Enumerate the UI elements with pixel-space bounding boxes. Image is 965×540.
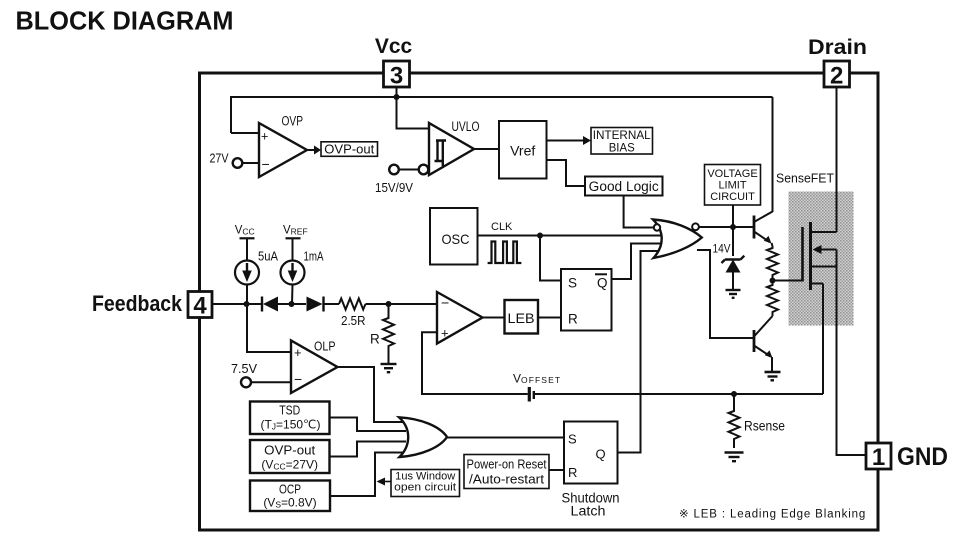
pin 3 Vcc <box>375 35 413 90</box>
resistor driver upper <box>767 246 778 281</box>
svg-text:1: 1 <box>872 444 885 471</box>
box Power-on Reset <box>464 455 549 489</box>
wire pin3 down <box>397 87 430 129</box>
node junction at R <box>386 301 392 307</box>
svg-text:LIMIT: LIMIT <box>718 180 746 192</box>
svg-text:BLOCK DIAGRAM: BLOCK DIAGRAM <box>16 6 234 36</box>
svg-text:R: R <box>370 332 380 347</box>
wire OLP plus input <box>247 304 291 352</box>
svg-text:Vcc: Vcc <box>375 35 413 58</box>
op-amp PWM comparator <box>437 292 483 344</box>
svg-text:GND: GND <box>897 443 948 471</box>
svg-text:OSC: OSC <box>442 231 470 247</box>
wire shutdown Q to gate input <box>618 251 659 453</box>
pin 2 Drain <box>808 35 867 90</box>
svg-text:−: − <box>294 371 302 387</box>
box TSD <box>250 402 330 435</box>
svg-text:S: S <box>568 276 577 291</box>
current source 1mA from Vref <box>281 225 325 305</box>
svg-text:R: R <box>568 465 577 480</box>
wire NOR lower output to low-side base <box>697 250 753 338</box>
svg-text:Drain: Drain <box>808 35 867 59</box>
svg-text:2.5R: 2.5R <box>341 313 366 328</box>
wire sense source down <box>822 284 824 395</box>
svg-text:+: + <box>441 326 449 341</box>
node pin3 junction <box>394 94 400 100</box>
node drive junction <box>730 224 736 230</box>
battery Voffset <box>513 372 823 402</box>
wire Good Logic to gate input <box>624 196 654 228</box>
svg-text:Latch: Latch <box>571 504 606 519</box>
svg-text:VOLTAGE: VOLTAGE <box>707 168 757 180</box>
svg-text:UVLO: UVLO <box>452 119 480 134</box>
wire OLP output down <box>338 367 405 422</box>
ground below zener <box>726 290 741 298</box>
op-amp UVLO hysteresis comparator <box>429 119 480 175</box>
node Rsense junction <box>731 391 737 397</box>
box LEB <box>505 300 539 334</box>
svg-text:/Auto-restart: /Auto-restart <box>469 473 545 487</box>
svg-text:BIAS: BIAS <box>609 141 635 155</box>
diode D2 <box>307 297 324 312</box>
OR gate shutdown <box>399 417 447 457</box>
svg-text:(VCC=27V): (VCC=27V) <box>261 458 318 472</box>
IC outer boundary box <box>200 73 879 530</box>
svg-text:S: S <box>568 432 577 447</box>
svg-text:OCP: OCP <box>279 483 301 497</box>
wire Vref to INTERNAL BIAS arrow <box>547 136 592 145</box>
svg-text:+: + <box>294 345 302 360</box>
svg-text:+: + <box>261 130 268 144</box>
svg-text:Feedback: Feedback <box>92 291 183 316</box>
svg-text:−: − <box>441 295 449 311</box>
wire between diodes <box>278 303 306 305</box>
terminal 7.5V <box>231 362 291 387</box>
ground below Rsense <box>725 453 744 462</box>
svg-text:Power-on Reset: Power-on Reset <box>467 458 547 472</box>
latch Shutdown <box>562 422 620 519</box>
node junction 5uA <box>244 301 250 307</box>
gate driver NOR gate <box>653 220 702 259</box>
box INTERNAL BIAS <box>591 128 653 155</box>
wire to SenseFET gate <box>773 280 802 282</box>
node junction 1mA <box>289 301 295 307</box>
svg-text:TSD: TSD <box>279 404 300 418</box>
svg-text:1mA: 1mA <box>304 250 325 264</box>
wire SenseFET source to GND pin <box>837 267 867 456</box>
svg-text:open circuit: open circuit <box>394 482 456 494</box>
wire TSD to OR gate <box>330 418 407 432</box>
wire OVP output arrow <box>307 146 321 155</box>
terminal 27V <box>210 151 260 168</box>
wire OCP to OR gate <box>330 453 404 497</box>
svg-text:2: 2 <box>830 63 843 90</box>
svg-text:VCC: VCC <box>235 225 255 237</box>
transistor Q high-side driver <box>754 97 773 246</box>
box Vref <box>499 121 547 179</box>
wire comparator plus to Voffset <box>422 332 528 394</box>
clock waveform pulses <box>488 242 522 264</box>
box OVP-out <box>321 142 378 157</box>
svg-text:Rsense: Rsense <box>744 419 785 434</box>
wire OR gate to shutdown latch S <box>447 437 564 439</box>
svg-text:OVP-out: OVP-out <box>264 444 316 458</box>
svg-text:※ LEB : Leading Edge Blanking: ※ LEB : Leading Edge Blanking <box>679 509 866 521</box>
resistor Rsense <box>729 394 786 448</box>
latch S Qbar R <box>561 269 612 331</box>
wire to resistor 2.5R <box>324 303 340 305</box>
svg-text:(TJ=150℃): (TJ=150℃) <box>260 418 320 432</box>
wire VLC down to drive node <box>732 205 734 256</box>
diode D1 <box>262 297 278 312</box>
current source 5uA from Vcc <box>235 225 279 305</box>
ground low-side emitter <box>765 372 781 380</box>
svg-text:OVP: OVP <box>282 114 304 129</box>
wire POR to latch R <box>549 469 564 471</box>
svg-text:Q: Q <box>597 276 608 291</box>
box VOLTAGE LIMIT CIRCUIT <box>705 165 761 206</box>
svg-text:Q: Q <box>596 447 606 462</box>
wire to comparator <box>366 303 438 305</box>
svg-text:VREF: VREF <box>283 225 308 237</box>
svg-text:−: − <box>262 156 270 172</box>
svg-text:SenseFET: SenseFET <box>776 171 834 186</box>
op-amp OLP comparator <box>291 340 338 394</box>
box Good Logic <box>585 177 663 196</box>
wire OVP plus input <box>231 132 259 134</box>
wire UVLO to Vref <box>474 148 499 150</box>
terminal 15V/9V <box>375 165 428 195</box>
svg-text:CIRCUIT: CIRCUIT <box>710 191 755 203</box>
svg-text:OVP-out: OVP-out <box>324 142 374 157</box>
wire NOR output to driver base <box>699 226 753 228</box>
wire CLK to latch S <box>540 236 561 281</box>
svg-text:27V: 27V <box>210 151 229 166</box>
wire comparator to LEB <box>483 317 505 319</box>
box OCP <box>250 481 330 512</box>
svg-text:15V/9V: 15V/9V <box>375 180 413 195</box>
wire feedback main <box>212 303 263 305</box>
svg-text:7.5V: 7.5V <box>231 362 258 376</box>
resistor driver lower <box>767 283 778 316</box>
svg-text:Good Logic: Good Logic <box>589 179 659 194</box>
SenseFET shaded region <box>789 192 854 326</box>
resistor R to ground <box>370 304 394 363</box>
wire Vcc rail from pin3 node <box>231 97 773 133</box>
svg-text:14V: 14V <box>713 242 731 256</box>
svg-text:CLK: CLK <box>491 221 513 233</box>
svg-text:3: 3 <box>390 63 403 90</box>
ground below R <box>381 364 397 372</box>
pin 1 GND <box>866 443 948 471</box>
node CLK junction <box>537 233 543 239</box>
transistor Q low-side driver <box>754 316 773 372</box>
box OSC <box>430 208 478 265</box>
op-amp OVP comparator <box>259 114 307 178</box>
resistor 2.5R <box>339 299 365 310</box>
wire OVP-out to OR gate <box>330 442 407 457</box>
svg-text:5uA: 5uA <box>258 250 279 264</box>
wire LEB to latch R <box>538 317 561 319</box>
svg-text:OLP: OLP <box>314 340 336 354</box>
wire Vref to Good Logic <box>547 160 586 186</box>
box 1us Window open circuit <box>377 470 460 497</box>
pin 4 Feedback <box>92 291 212 320</box>
svg-text:R: R <box>568 312 578 327</box>
svg-text:4: 4 <box>193 293 207 320</box>
wire CLK <box>478 235 664 237</box>
node gate drive junction <box>770 278 776 284</box>
zener diode 14V <box>713 242 745 291</box>
box OVP-out lower <box>250 440 330 473</box>
svg-text:LEB: LEB <box>508 310 535 326</box>
svg-text:Vref: Vref <box>510 143 535 159</box>
transistor SenseFET MOSFET <box>803 88 837 291</box>
wire latch Qbar to gate <box>612 244 663 280</box>
svg-text:(VS=0.8V): (VS=0.8V) <box>263 496 316 510</box>
